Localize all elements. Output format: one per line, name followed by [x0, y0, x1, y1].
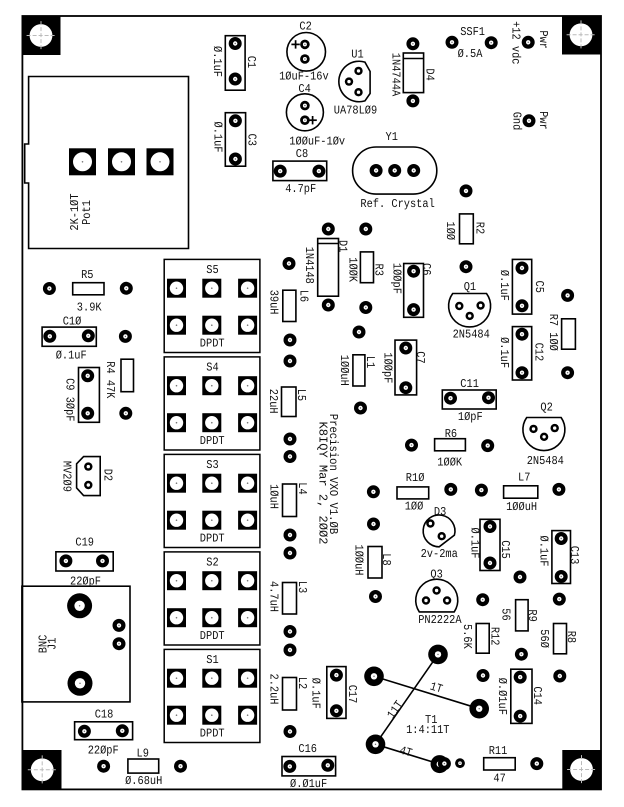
- svg-text:L7: L7: [518, 471, 530, 485]
- capacitor C3: [210, 113, 258, 167]
- title text K8IQY Mar 2, 2002: [316, 422, 330, 545]
- svg-text:J1: J1: [46, 638, 60, 650]
- power terminal Pwr +12 vdc: [508, 21, 550, 64]
- svg-text:Ø.5A: Ø.5A: [458, 47, 483, 61]
- capacitor C4 electrolytic: [286, 82, 345, 148]
- svg-text:C5: C5: [532, 281, 546, 293]
- svg-text:C14: C14: [530, 686, 544, 705]
- svg-text:R5: R5: [81, 268, 93, 282]
- capacitor C13: [537, 531, 582, 584]
- transistor Q2 2N5484: [523, 400, 565, 468]
- svg-text:S3: S3: [206, 458, 218, 472]
- svg-text:L8: L8: [379, 553, 393, 565]
- svg-text:R11: R11: [489, 744, 508, 758]
- pad right of C10: [119, 330, 132, 343]
- switch S3 DPDT: [164, 454, 260, 547]
- switch S2 DPDT: [164, 552, 260, 645]
- pad below L2: [284, 725, 297, 738]
- inductor L7 100uH: [475, 471, 566, 514]
- resistor R7 100: [546, 289, 575, 379]
- svg-text:S4: S4: [206, 361, 218, 375]
- svg-text:U1: U1: [351, 48, 363, 62]
- T1 secondary 11T winding wire: [376, 654, 439, 744]
- potentiometer Pot1 2K-10T: [25, 77, 189, 249]
- svg-text:L1: L1: [363, 356, 377, 368]
- capacitor C6 100pF: [390, 263, 433, 317]
- resistor R11 47: [438, 744, 543, 786]
- svg-text:D3: D3: [434, 505, 446, 519]
- svg-text:2v-2ma: 2v-2ma: [421, 547, 458, 561]
- inductor L3 4.7uH: [267, 581, 310, 614]
- pad left of L8: [367, 518, 380, 531]
- resistor R8 560: [537, 624, 578, 654]
- svg-text:Ø.68uH: Ø.68uH: [125, 774, 162, 788]
- svg-text:Ø.Ø1uF: Ø.Ø1uF: [495, 678, 509, 715]
- pad below L8: [369, 590, 382, 603]
- resistor R3 100K: [345, 223, 385, 315]
- svg-text:Pwr: Pwr: [536, 111, 550, 130]
- resistor R10 100: [367, 471, 457, 514]
- pads around R9 R12 R8: [476, 593, 566, 683]
- svg-text:PN2222A: PN2222A: [418, 613, 462, 627]
- svg-text:Q2: Q2: [540, 400, 552, 414]
- inductor L9 0.68uH: [97, 747, 187, 789]
- svg-text:1:4:11T: 1:4:11T: [406, 723, 449, 737]
- svg-text:1ØØuH: 1ØØuH: [337, 355, 351, 386]
- capacitor C11 10pF: [442, 377, 496, 424]
- crystal Y1: [353, 130, 437, 211]
- capacitor C18 220pF: [75, 708, 133, 758]
- svg-text:S2: S2: [206, 556, 218, 570]
- svg-text:56: 56: [499, 608, 513, 620]
- svg-text:R2: R2: [473, 222, 487, 234]
- capacitor C16 0.01uF: [282, 742, 336, 791]
- capacitor C9 30pF: [62, 368, 99, 423]
- svg-text:R9: R9: [525, 609, 539, 621]
- svg-text:C1Ø: C1Ø: [63, 315, 82, 329]
- svg-text:Y1: Y1: [386, 130, 398, 144]
- svg-text:Ø.1uF: Ø.1uF: [309, 678, 323, 709]
- svg-text:Pwr: Pwr: [536, 30, 550, 49]
- inductor L1 100uH: [337, 355, 377, 386]
- resistor R5 3.9K: [43, 268, 133, 314]
- svg-text:C1: C1: [244, 56, 258, 68]
- T1 primary 1T winding wire: [374, 676, 479, 708]
- mounting hole top-left: [22, 16, 61, 55]
- transistor Q1 2N5484: [449, 280, 491, 342]
- svg-text:S1: S1: [206, 653, 218, 667]
- svg-text:C19: C19: [75, 536, 94, 550]
- svg-text:C13: C13: [567, 546, 581, 565]
- svg-text:1ØØK: 1ØØK: [345, 257, 359, 282]
- svg-text:C4: C4: [298, 82, 310, 96]
- svg-text:1ØØuH: 1ØØuH: [352, 545, 366, 576]
- transformer T1 1:4:11T: [364, 645, 489, 773]
- power terminal Pwr Gnd: [510, 111, 550, 130]
- svg-text:R6: R6: [445, 427, 457, 441]
- svg-text:Gnd: Gnd: [510, 112, 524, 131]
- svg-text:R1Ø: R1Ø: [406, 471, 425, 485]
- svg-text:Pot1: Pot1: [80, 200, 94, 225]
- capacitor C15: [467, 519, 512, 570]
- svg-text:L6: L6: [296, 290, 310, 302]
- resistor R9 56: [499, 600, 540, 631]
- svg-text:4.7uH: 4.7uH: [267, 581, 281, 612]
- pad right of C9: [119, 407, 132, 420]
- title text Precision VXO V1.0B: [326, 414, 340, 534]
- svg-text:C17: C17: [345, 685, 359, 704]
- svg-text:4.7pF: 4.7pF: [285, 182, 316, 196]
- zener diode D4 1N4744A: [388, 37, 436, 107]
- resistor R4 47K: [103, 359, 134, 399]
- svg-text:C3: C3: [245, 133, 259, 145]
- svg-text:1ØuH: 1ØuH: [267, 484, 281, 509]
- svg-text:K8IQY Mar 2, 2ØØ2: K8IQY Mar 2, 2ØØ2: [316, 422, 330, 545]
- svg-text:R8: R8: [564, 631, 578, 643]
- capacitor C19 220pF: [56, 536, 113, 589]
- svg-text:DPDT: DPDT: [200, 336, 225, 350]
- inductor L2 2.2uH: [267, 674, 310, 711]
- svg-text:1ØØuH: 1ØØuH: [506, 500, 537, 514]
- T1 pad top: [428, 645, 448, 665]
- pad above L6: [283, 257, 296, 270]
- svg-text:C15: C15: [498, 540, 512, 559]
- svg-text:D4: D4: [422, 68, 436, 80]
- pads below L5: [284, 433, 297, 464]
- svg-text:Ø.1uF: Ø.1uF: [537, 536, 551, 567]
- inductor L6 39uH: [267, 290, 311, 322]
- svg-text:D1: D1: [336, 240, 350, 252]
- svg-text:22uH: 22uH: [266, 389, 280, 414]
- svg-text:DPDT: DPDT: [200, 434, 225, 448]
- resistor R2 100: [443, 184, 487, 273]
- svg-text:C11: C11: [460, 377, 479, 391]
- svg-text:1ØØK: 1ØØK: [437, 455, 462, 469]
- svg-text:S5: S5: [206, 263, 218, 277]
- pad below C6: [353, 326, 366, 339]
- mounting hole top-right: [562, 16, 601, 55]
- svg-text:UA78LØ9: UA78LØ9: [334, 104, 377, 118]
- svg-text:Ø.Ø1uF: Ø.Ø1uF: [290, 777, 327, 791]
- svg-text:C18: C18: [95, 708, 114, 722]
- svg-text:+12 vdc: +12 vdc: [508, 21, 522, 64]
- svg-text:1ØpF: 1ØpF: [458, 410, 483, 424]
- T1 pad right: [469, 699, 489, 719]
- svg-text:Ref. Crystal: Ref. Crystal: [360, 197, 434, 211]
- capacitor C7 100pF: [380, 340, 427, 395]
- svg-text:22ØpF: 22ØpF: [88, 743, 119, 757]
- switch S5 DPDT: [164, 259, 260, 352]
- svg-text:Ø.1uF: Ø.1uF: [497, 270, 511, 301]
- T1 pad bottom-left: [366, 735, 386, 755]
- pads below L3: [284, 625, 297, 657]
- svg-text:L2: L2: [295, 677, 309, 689]
- svg-text:DPDT: DPDT: [200, 726, 225, 740]
- pads below L6: [284, 334, 297, 368]
- svg-text:Ø.1uF: Ø.1uF: [210, 46, 224, 77]
- varactor diode D2 MV209: [60, 457, 115, 496]
- mounting hole bottom-right: [562, 750, 601, 789]
- svg-text:C9 3ØpF: C9 3ØpF: [62, 378, 76, 421]
- switch S1 DPDT: [164, 649, 260, 742]
- regulator U1 UA78L09: [334, 48, 377, 118]
- svg-text:C8: C8: [296, 147, 308, 161]
- svg-text:DPDT: DPDT: [200, 629, 225, 643]
- svg-text:L3: L3: [295, 581, 309, 593]
- capacitor C5: [497, 259, 546, 314]
- T1 pad bottom: [431, 755, 449, 773]
- svg-text:DPDT: DPDT: [200, 531, 225, 545]
- svg-text:1N4744A: 1N4744A: [388, 53, 402, 97]
- pads below L4: [284, 529, 297, 560]
- svg-text:R12: R12: [487, 627, 501, 646]
- svg-text:MV2Ø9: MV2Ø9: [60, 461, 74, 492]
- svg-text:2N5484: 2N5484: [453, 327, 490, 341]
- svg-text:5.6K: 5.6K: [460, 624, 474, 649]
- svg-text:L4: L4: [295, 482, 309, 494]
- svg-text:1ØØpF: 1ØØpF: [390, 263, 404, 294]
- svg-text:C12: C12: [531, 343, 545, 362]
- fuse SSF1 0.5A: [446, 25, 498, 61]
- svg-text:3.9K: 3.9K: [77, 300, 102, 314]
- capacitor C10: [42, 315, 96, 363]
- diode D3 2v-2ma: [421, 505, 458, 561]
- inductor L4 10uH: [267, 482, 310, 516]
- svg-text:D2: D2: [100, 469, 114, 481]
- svg-text:Ø.1uF: Ø.1uF: [210, 122, 224, 153]
- capacitor C8: [273, 147, 327, 196]
- capacitor C17: [309, 667, 360, 719]
- capacitor C1: [210, 36, 258, 90]
- switch S4 DPDT: [164, 357, 260, 450]
- svg-text:C2: C2: [299, 20, 311, 34]
- svg-text:2N5484: 2N5484: [527, 454, 564, 468]
- svg-text:Ø.1uF: Ø.1uF: [56, 348, 87, 362]
- svg-text:1N4148: 1N4148: [302, 247, 316, 284]
- svg-text:47: 47: [493, 771, 505, 785]
- capacitor C2 electrolytic: [279, 20, 329, 84]
- svg-text:39uH: 39uH: [267, 290, 281, 315]
- svg-text:1ØØ: 1ØØ: [405, 500, 424, 514]
- inductor L8 100uH: [352, 545, 394, 579]
- pad above title: [354, 402, 367, 415]
- svg-text:L9: L9: [137, 747, 149, 761]
- T1 4T winding wire: [376, 744, 440, 764]
- transistor Q3 PN2222A: [416, 567, 463, 627]
- diode D1 1N4148: [302, 223, 350, 312]
- svg-text:L5: L5: [294, 389, 308, 401]
- svg-text:56Ø: 56Ø: [537, 629, 551, 648]
- svg-text:Ø.1uF: Ø.1uF: [467, 528, 481, 559]
- capacitor C14 0.01uF: [495, 669, 544, 723]
- inductor L5 22uH: [266, 387, 308, 417]
- resistor R12 5.6K: [460, 624, 501, 654]
- T1 pad bottom small: [455, 758, 465, 768]
- svg-text:R4 47K: R4 47K: [103, 361, 117, 399]
- svg-text:Q3: Q3: [430, 567, 442, 581]
- svg-text:SSF1: SSF1: [460, 25, 485, 39]
- T1 pad left: [364, 667, 384, 687]
- svg-text:Q1: Q1: [464, 280, 476, 294]
- svg-text:1ØØpF: 1ØØpF: [380, 352, 394, 383]
- svg-text:C16: C16: [298, 742, 317, 756]
- svg-text:C7: C7: [413, 351, 427, 363]
- svg-text:1ØØ: 1ØØ: [443, 221, 457, 240]
- connector J1 BNC: [22, 586, 130, 702]
- resistor R6 100K: [405, 427, 494, 470]
- mounting hole bottom-left: [23, 750, 62, 789]
- svg-text:Ø.1uF: Ø.1uF: [497, 337, 511, 368]
- svg-text:2.2uH: 2.2uH: [267, 674, 281, 705]
- svg-text:C6: C6: [419, 263, 433, 275]
- capacitor C12: [497, 327, 545, 380]
- svg-text:R3: R3: [372, 264, 386, 276]
- pad below C15: [514, 571, 527, 584]
- svg-text:R7 1ØØ: R7 1ØØ: [546, 314, 560, 351]
